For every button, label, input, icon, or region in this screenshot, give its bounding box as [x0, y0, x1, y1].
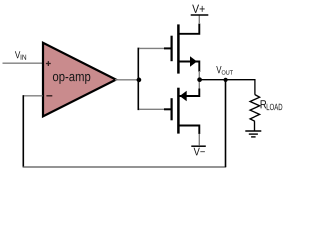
Q2 drain lead [179, 126, 200, 135]
wire feedback left vertical [22, 95, 24, 167]
junction dot VOUT node [197, 77, 202, 82]
transistor Q2 (bottom PMOS) [164, 88, 199, 134]
wire resistor to ground [254, 121, 256, 131]
Q2 gate stub [164, 108, 173, 110]
wire V- stub [198, 134, 200, 145]
wire feedback right vertical [225, 80, 227, 167]
ground [245, 131, 261, 137]
RLOAD value label [261, 100, 283, 110]
Q2 channel bar [177, 88, 180, 134]
op-amp label [53, 74, 90, 84]
V- supply rail bar [191, 145, 206, 147]
wire op-amp output [115, 79, 138, 81]
wire top gate lead [139, 47, 165, 49]
wire V+ stub [198, 15, 200, 24]
op-amp U1 body [43, 43, 116, 117]
op-amp pin + (non-inverting) [46, 61, 51, 66]
node VOUT label [216, 66, 233, 75]
Q1 drain lead [179, 24, 200, 34]
op-amp pin - (inverting) [46, 95, 52, 97]
wire VOUT rail [200, 80, 255, 95]
Q1 source lead [179, 62, 200, 73]
resistor RLOAD zigzag [250, 95, 260, 122]
node V+ label [192, 5, 205, 13]
Q2 source arrow [180, 91, 187, 102]
wire VIN input lead [3, 62, 43, 64]
Q1 source arrow [190, 56, 197, 67]
node V- label [194, 148, 205, 156]
Q1 gate bar [171, 36, 173, 62]
wire gate bus vertical [138, 48, 139, 109]
junction dot op-amp output / gate bus [137, 78, 142, 83]
wire bottom gate lead [139, 108, 165, 110]
Q2 source lead [179, 89, 200, 97]
node VIN label [15, 51, 26, 60]
transistor Q1 (top NMOS) [164, 24, 199, 74]
wire inverting input lead [23, 95, 43, 97]
wire output node to Q2 source [198, 82, 200, 89]
Q1 gate stub [164, 47, 173, 49]
wire feedback bottom horizontal [23, 166, 227, 168]
Q2 gate bar [171, 98, 173, 120]
junction dot feedback tap [224, 78, 228, 82]
Q1 channel bar [177, 24, 180, 73]
wire Q1 source to output node [198, 71, 200, 78]
V+ supply rail bar [191, 14, 209, 16]
